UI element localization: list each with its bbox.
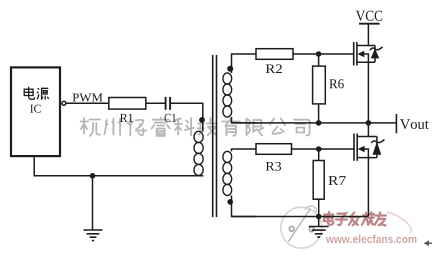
ground 1 bbox=[84, 230, 103, 241]
label R6 bbox=[329, 79, 343, 88]
power IC U1 bbox=[11, 67, 60, 156]
wire bottom rail bbox=[232, 216, 369, 218]
wire R6 top stem bbox=[318, 54, 320, 66]
phase dot secondary bottom bbox=[227, 199, 233, 205]
label 电源 bbox=[24, 87, 48, 100]
wire Vout rail bbox=[232, 122, 397, 124]
transistor Q2 bbox=[354, 134, 377, 161]
capacitor C1 bbox=[166, 97, 171, 110]
label R1 bbox=[120, 114, 133, 122]
resistor R3 bbox=[256, 144, 292, 155]
resistor R6 bbox=[313, 66, 326, 104]
label IC bbox=[30, 105, 40, 113]
label PWM bbox=[73, 94, 103, 102]
wire Q2 source to bottom rail bbox=[367, 158, 369, 217]
transformer T1 secondary top winding bbox=[223, 73, 232, 117]
wire R7 top stem bbox=[318, 149, 320, 161]
wire secondary-top upper lead bbox=[232, 54, 257, 73]
wire C1 to transformer primary bbox=[170, 103, 203, 131]
resistor R1 bbox=[109, 98, 146, 110]
junction primary-ground bbox=[90, 173, 96, 179]
wire R7 bottom stem bbox=[318, 199, 320, 216]
transformer T1 core bbox=[213, 55, 217, 217]
junction R3-R7 bbox=[316, 146, 322, 152]
wire secondary-bottom upper lead bbox=[232, 149, 257, 151]
wire Q1 source to Vout rail bbox=[367, 62, 369, 123]
wire to ground 1 bbox=[92, 176, 94, 230]
label R7 bbox=[328, 176, 345, 185]
resistor R7 bbox=[313, 161, 324, 200]
label R3 bbox=[266, 162, 281, 171]
wire secondary-bottom lower lead bbox=[232, 195, 257, 216]
wire to ground 2 bbox=[318, 217, 320, 227]
wire secondary-top lower lead bbox=[232, 117, 257, 123]
phase dot secondary top bbox=[227, 66, 233, 72]
label Vout bbox=[400, 119, 429, 129]
junction bottom rail ground bbox=[316, 214, 322, 220]
body diode D2 bbox=[371, 137, 384, 158]
wire R1 to C1 bbox=[146, 102, 166, 104]
power VCC label bbox=[356, 11, 382, 21]
transistor Q1 bbox=[354, 42, 375, 66]
phase dot primary bbox=[199, 117, 205, 123]
node Vout terminal bbox=[395, 114, 397, 133]
wire PWM to R1 bbox=[66, 102, 109, 104]
junction R6-Vout rail bbox=[316, 120, 322, 126]
junction R2-R6 bbox=[316, 51, 322, 57]
resistor R2 bbox=[256, 49, 293, 60]
node PWM terminal bbox=[62, 101, 66, 105]
wire R2 to gate Q1 bbox=[293, 53, 354, 55]
body diode D1 bbox=[370, 46, 383, 63]
ground 2 bbox=[309, 227, 329, 238]
label C1 bbox=[164, 114, 175, 122]
junction Q1 source - Q2 drain bbox=[366, 120, 372, 126]
wire primary bottom to power IC bbox=[34, 156, 203, 176]
wire Q2 drain from Vout rail bbox=[367, 123, 369, 137]
label R2 bbox=[266, 64, 282, 73]
wire VCC to Q1 drain bbox=[367, 24, 369, 46]
wire R3 to gate Q2 bbox=[292, 148, 355, 150]
power VCC terminal bar bbox=[359, 23, 380, 25]
transformer T1 secondary bottom winding bbox=[223, 151, 232, 195]
wire R6 bottom stem bbox=[318, 104, 320, 123]
transformer T1 primary winding bbox=[194, 131, 203, 175]
